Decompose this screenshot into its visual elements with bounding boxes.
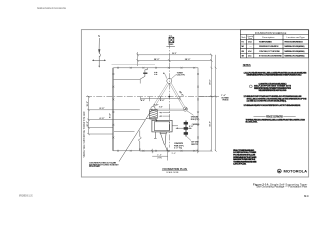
svg-text:4'-0": 4'-0" [160,99,164,102]
svg-text:TOWER FOUNDATION: TOWER FOUNDATION [259,41,272,44]
svg-text:R1: R1 [241,42,244,44]
svg-text:TOWER: TOWER [168,44,174,46]
svg-text:4"x4: 4"x4 [248,41,252,44]
svg-text:CADWELD: CADWELD [192,123,200,126]
svg-text:CONC BLD, 1.5" THICK PAD: CONC BLD, 1.5" THICK PAD [259,50,280,53]
svg-text:MATERIAL GROUND (AREA 1): MATERIAL GROUND (AREA 1) [284,45,305,48]
svg-text:—: — [250,46,253,48]
svg-text:FENCE: FENCE [223,99,230,101]
svg-text:SCALE: NONE: SCALE: NONE [166,171,179,174]
svg-text:Site Grounding Package — Found: Site Grounding Package — Foundation Plan [256,185,307,189]
svg-text:2'-0": 2'-0" [189,126,194,128]
svg-text:MR: MR [241,46,244,48]
svg-text:DETERMINED AFTER COORDINATE RE: DETERMINED AFTER COORDINATE REVIEW AND T… [247,74,303,77]
svg-text:MATERIAL GROUND (AREA 2): MATERIAL GROUND (AREA 2) [284,50,305,53]
svg-text:ROD TYP: ROD TYP [191,144,199,146]
svg-text:4'-0": 4'-0" [141,99,145,102]
svg-text:28'-0": 28'-0" [185,59,191,61]
svg-text:LAYOUT PLAN.: LAYOUT PLAN. [233,163,246,166]
svg-text:68P81089E50-B 11/1/02: 68P81089E50-B 11/1/02 [19,194,33,198]
svg-text:6'-0": 6'-0" [100,118,105,120]
svg-text:(TYP): (TYP) [157,157,162,159]
svg-text:28'-0": 28'-0" [154,59,160,61]
svg-text:40'-0": 40'-0" [178,90,184,97]
svg-text:4'-0": 4'-0" [154,104,159,107]
svg-text:ROD (TYP): ROD (TYP) [191,119,200,121]
svg-text:FOUNDATION PLAN: FOUNDATION PLAN [163,167,187,171]
svg-text:Size: Size [248,38,252,40]
svg-text:ICE BRIDGE FOUNDATION: ICE BRIDGE FOUNDATION [259,45,279,48]
svg-text:15'-0": 15'-0" [87,101,89,107]
svg-text:Standards and Guidelines For C: Standards and Guidelines For Communicati… [37,6,66,10]
svg-text:MATERIAL GROUND (AREA 3): MATERIAL GROUND (AREA 3) [284,55,305,58]
svg-text:N: N [98,34,100,38]
svg-text:30'-0": 30'-0" [209,79,211,85]
svg-text:NOTES: NOTES [243,63,251,67]
svg-text:Location and Type: Location and Type [287,36,306,39]
svg-text:4"x2: 4"x2 [248,50,252,53]
svg-text:8'-0": 8'-0" [100,108,105,110]
svg-text:3'-0" SQ: 3'-0" SQ [174,148,183,150]
svg-text:2.2 SEE 2.5 CONSTRUCTION BASEL: 2.2 SEE 2.5 CONSTRUCTION BASELINE(C). [247,100,287,103]
svg-text:56'-0": 56'-0" [172,53,176,55]
svg-text:56'-0": 56'-0" [209,121,211,127]
svg-text:8" X 16" DOOR CONCRETE PAD: 8" X 16" DOOR CONCRETE PAD [259,55,282,58]
svg-text:3. THE 8'x8 AUXILIARY COAX AS: 3. THE 8'x8 AUXILIARY COAX AS PERPENDICU… [244,104,301,107]
svg-text:10'-0": 10'-0" [87,121,89,127]
svg-text:LEG (TYP): LEG (TYP) [177,75,185,77]
svg-text:Description: Description [262,36,275,39]
svg-text:FG-14: FG-14 [304,194,309,198]
svg-text:SIMPLE SELF-SUPPORTING TOWER S: SIMPLE SELF-SUPPORTING TOWER SITE GND [82,111,86,157]
svg-text:8'-6": 8'-6" [110,113,112,118]
svg-text:Mark: Mark [242,36,247,39]
svg-text:BASELINE.: BASELINE. [246,121,258,124]
svg-text:FOUNDATION SCHEDULE: FOUNDATION SCHEDULE [255,31,287,35]
svg-text:1'-6": 1'-6" [159,107,163,109]
svg-text:PER ON TOWER DRAWINGS: PER ON TOWER DRAWINGS [284,41,303,44]
svg-text:WILL BE REFERENCED AS FOLLOWS: WILL BE REFERENCED AS FOLLOWS [259,89,288,92]
svg-text:FROM TOWER: FROM TOWER [89,166,100,168]
svg-text:3'-0": 3'-0" [172,153,177,155]
svg-text:MOTOROLA: MOTOROLA [284,169,308,173]
svg-text:4'-6": 4'-6" [157,154,162,156]
svg-text:FENCE CORNERS: FENCE CORNERS [266,115,283,118]
svg-text:GW: GW [241,56,244,58]
svg-text:LPS: LPS [241,51,244,53]
svg-text:4"x1: 4"x1 [248,55,252,58]
